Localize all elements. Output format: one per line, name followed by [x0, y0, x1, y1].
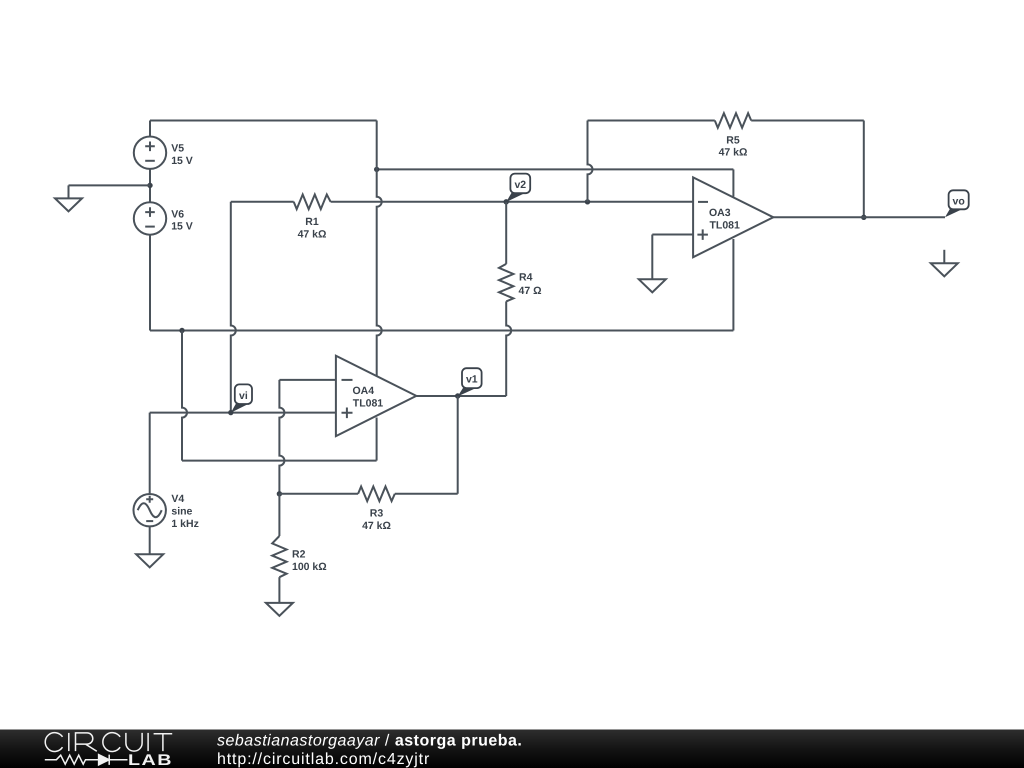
ground (R2) [266, 603, 293, 616]
footer bar [0, 730, 1024, 768]
wire midpoint to ground [69, 184, 151, 186]
wire R2 top lead [278, 494, 280, 536]
svg-text:OA4: OA4 [353, 385, 375, 397]
node flag v1 [458, 368, 482, 396]
svg-text:OA3: OA3 [709, 207, 731, 219]
op-amp OA4 TL081 [336, 356, 416, 436]
svg-text:TL081: TL081 [710, 219, 741, 231]
svg-text:R3: R3 [370, 508, 384, 520]
svg-text:100 kΩ: 100 kΩ [292, 561, 327, 573]
svg-text:vo: vo [953, 196, 965, 208]
CircuitLab logo resistor-diode glyph [45, 755, 128, 765]
wire R2 bottom lead to ground [278, 577, 280, 603]
svg-text:v2: v2 [514, 179, 526, 191]
node flag vo [945, 190, 969, 217]
svg-text:47 kΩ: 47 kΩ [719, 147, 748, 159]
wire R5 left lead [588, 120, 715, 122]
wire V4 bottom to ground [149, 527, 151, 554]
node R5 branch junction [585, 199, 590, 204]
svg-text:R5: R5 [726, 134, 740, 146]
ground (OA3 +in) [639, 279, 666, 292]
svg-text:15 V: 15 V [171, 155, 193, 167]
svg-text:V5: V5 [171, 143, 184, 155]
wire R1 left vertical to vi [231, 202, 236, 413]
svg-text:sebastianastorgaayar / astorga: sebastianastorgaayar / astorga prueba. [217, 733, 522, 750]
wire R5 right lead [751, 120, 864, 122]
wire vi net (V4 to OA4 +in) [150, 412, 336, 414]
wire OA4 V- stub [376, 418, 378, 461]
wire OA4 V- horizontal [182, 460, 377, 462]
ground (floating near vo) [931, 263, 958, 276]
resistor R1 47k [294, 195, 331, 241]
svg-text:V6: V6 [171, 209, 184, 221]
voltage source V4 sine [134, 493, 199, 530]
wire OA4 output [416, 395, 506, 397]
node v2 junction [504, 199, 509, 204]
ground (supply midpoint) [55, 198, 82, 211]
svg-text:47 Ω: 47 Ω [519, 285, 542, 297]
resistor R5 47k [715, 113, 751, 159]
svg-text:http://circuitlab.com/c4zyjtr: http://circuitlab.com/c4zyjtr [217, 751, 430, 768]
node flag v2 [506, 174, 530, 202]
svg-text:LAB: LAB [128, 752, 173, 768]
wire R4 bottom lead [506, 301, 511, 396]
wire V5 to V6 (midpoint) [149, 169, 151, 203]
svg-text:1 kHz: 1 kHz [171, 518, 198, 530]
node R3/R2 junction [277, 491, 282, 496]
node vi junction [228, 410, 233, 415]
resistor R4 47 [499, 264, 542, 302]
svg-text:R4: R4 [519, 272, 533, 284]
wire OA3 V+ stub [732, 169, 734, 196]
wire R5 right vertical [863, 121, 865, 218]
svg-text:47 kΩ: 47 kΩ [362, 520, 391, 532]
wire -15V bottom rail [150, 330, 733, 332]
svg-text:v1: v1 [466, 374, 478, 386]
resistor R3 47k [358, 487, 395, 532]
wire OA4 -in vertical to R3 [279, 380, 284, 494]
wire +15V mid feed [377, 168, 734, 170]
svg-text:TL081: TL081 [353, 397, 384, 409]
resistor R2 100k [272, 536, 327, 577]
wire V4 top [149, 413, 151, 494]
wire vo floating ground stub [943, 250, 945, 263]
wire OA3 output to vo [773, 216, 945, 218]
svg-text:R2: R2 [292, 549, 306, 561]
wire OA3 V- stub to rail [732, 239, 734, 331]
CircuitLab logo wordmark CIRCUIT (drawn letters) [45, 733, 172, 752]
wire OA4 -in lead [279, 379, 336, 381]
wire ground stub left [68, 185, 70, 198]
wire V5 top stub [149, 121, 151, 137]
wire +15V top rail [150, 120, 377, 122]
op-amp OA3 TL081 [693, 177, 773, 257]
node supply midpoint junction [147, 183, 152, 188]
svg-text:sine: sine [171, 505, 192, 517]
node v1 junction [455, 393, 460, 398]
wire R5 left vertical [588, 121, 593, 202]
node +15V feed junction [374, 167, 379, 172]
wire V6 bottom to -15V rail [149, 235, 151, 331]
wire +15V vertical to OA4 V+ [377, 121, 382, 376]
ground (V4) [136, 554, 163, 567]
wire R3 left lead [279, 493, 358, 495]
wire v1 vertical to R3 right [457, 396, 459, 494]
wire R3 right lead [395, 493, 458, 495]
wire OA3 +in to ground [651, 235, 653, 280]
voltage source V5 15V [134, 137, 193, 169]
node flag vi [231, 384, 252, 412]
wire v2 net (R1 right to OA3 -in) [331, 201, 693, 203]
svg-text:47 kΩ: 47 kΩ [298, 228, 327, 240]
wire R1 left lead [231, 201, 294, 203]
svg-text:15 V: 15 V [171, 221, 193, 233]
svg-text:vi: vi [239, 390, 248, 402]
wire OA4 V- to rail branch [182, 331, 187, 461]
node -15V rail branch [179, 328, 184, 333]
svg-text:V4: V4 [171, 493, 184, 505]
node output junction [861, 215, 866, 220]
voltage source V6 15V [134, 202, 193, 234]
wire R4 top lead [505, 202, 507, 264]
CircuitLab logo LAB [128, 752, 173, 768]
wire OA3 +in lead [652, 234, 693, 236]
svg-text:R1: R1 [305, 216, 319, 228]
